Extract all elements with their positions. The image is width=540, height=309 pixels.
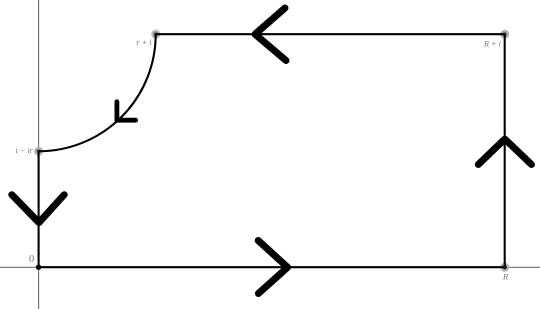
arrow on top edge (pointing left) bbox=[255, 8, 286, 61]
arrow on arc (pointing down-left) bbox=[117, 102, 136, 120]
arrow on left edge (pointing down) bbox=[12, 195, 64, 223]
point R+i bbox=[500, 30, 509, 39]
point 0 (origin) bbox=[36, 265, 41, 270]
y-axis bbox=[38, 0, 40, 309]
point i - ir bbox=[34, 147, 43, 156]
point R center dot bbox=[503, 265, 507, 269]
arrow on bottom edge (pointing right) bbox=[258, 241, 287, 294]
svg-text:0: 0 bbox=[29, 254, 34, 265]
point r+i bbox=[151, 30, 160, 39]
point R bbox=[500, 263, 509, 272]
svg-text:i − ir: i − ir bbox=[16, 146, 34, 155]
svg-text:r + i: r + i bbox=[137, 38, 153, 47]
x-axis bbox=[0, 266, 540, 268]
arrow on right edge (pointing up) bbox=[478, 139, 531, 165]
svg-text:R: R bbox=[502, 271, 509, 281]
contour: bottom edge, right edge, top edge, arc around i, left edge bbox=[39, 34, 505, 267]
svg-text:R + i: R + i bbox=[483, 39, 502, 48]
